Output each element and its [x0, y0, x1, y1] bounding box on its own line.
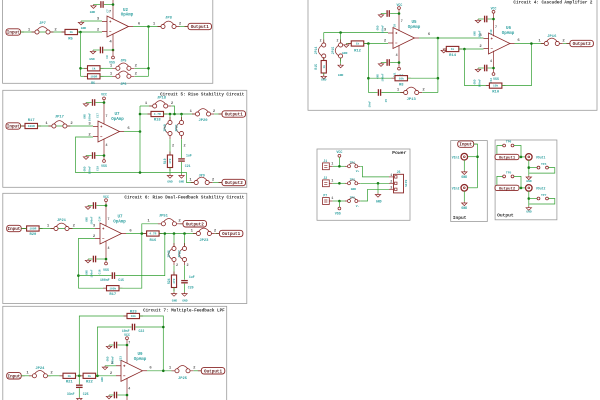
wire gnd to C17: [86, 102, 92, 104]
resistor R24 vertical: [173, 272, 175, 292]
node output junction: [139, 130, 142, 133]
op-amp U2: [107, 16, 129, 37]
svg-text:100nF: 100nF: [91, 269, 94, 277]
svg-text:JP18: JP18: [157, 97, 167, 101]
node R18 left: [139, 113, 142, 116]
op-amp U7b: [100, 223, 122, 244]
wire R15 to gnd: [323, 73, 325, 75]
node R8 right: [437, 77, 440, 80]
wire R6 to JP6: [100, 75, 113, 77]
power pin4 wire: [105, 241, 107, 262]
wire C22 to right vertical: [135, 326, 163, 328]
node VSS junction: [126, 394, 129, 397]
svg-text:C18: C18: [99, 269, 102, 274]
svg-text:C8: C8: [393, 24, 396, 28]
resistor R15 vertical: [323, 57, 325, 77]
supply VSS circle: [338, 207, 341, 210]
wire TP1 to J6 pin1: [360, 166, 389, 177]
svg-text:U9: U9: [137, 353, 143, 357]
svg-text:GND: GND: [461, 206, 467, 210]
wire C17 to rail: [96, 102, 105, 104]
svg-text:JP24: JP24: [35, 367, 45, 371]
svg-text:10nF: 10nF: [369, 101, 372, 108]
svg-text:10k: 10k: [131, 314, 136, 318]
supply VCC circle: [105, 199, 108, 202]
ground power: [375, 193, 380, 197]
wire R17 row right: [119, 234, 142, 289]
svg-text:JP14: JP14: [314, 47, 318, 55]
node VCC junction: [126, 344, 129, 347]
power pin 7 wire: [112, 0, 114, 19]
wire R17 row left: [78, 287, 106, 289]
wire C24 to rail: [117, 394, 127, 396]
svg-text:4: 4: [490, 59, 492, 63]
node row2: [338, 182, 341, 185]
capacitor C8: [386, 10, 387, 17]
jumper JP16: [541, 43, 563, 45]
svg-text:4.7R: 4.7R: [154, 113, 161, 116]
svg-text:TP3: TP3: [350, 196, 356, 199]
svg-text:2: 2: [384, 40, 387, 44]
wire R8 row right: [408, 77, 438, 79]
pin J6-1 stub: [389, 176, 394, 178]
pin J6-2 stub: [389, 182, 394, 184]
jumper JP19 vertical: [169, 117, 171, 139]
capacitor C23: [114, 342, 115, 349]
svg-text:C17: C17: [97, 113, 100, 118]
wire gnd to C8: [381, 13, 386, 15]
wire gnd vertical: [377, 183, 379, 193]
wire gnd to C23: [109, 344, 114, 346]
wire row2: [333, 182, 346, 184]
node row1 right: [147, 67, 150, 70]
jumper JP14 vertical: [323, 40, 325, 62]
wire R3 to JP5: [100, 67, 113, 69]
jumper JP7: [32, 31, 54, 33]
capacitor C5: [378, 89, 379, 96]
capacitor C17: [92, 99, 93, 106]
node VSS junction: [492, 67, 495, 70]
power pin7 wire: [126, 340, 128, 364]
svg-text:2: 2: [422, 88, 425, 92]
wire R5 to op-amp pin2: [78, 31, 103, 33]
svg-text:1k: 1k: [70, 30, 74, 34]
svg-text:7: 7: [495, 25, 497, 29]
node R8 row: [367, 77, 370, 80]
supply VSS circle: [398, 67, 401, 70]
wire C10 to rail: [488, 18, 494, 20]
wire gnd to C14: [88, 205, 93, 207]
pin J6-3 stub: [389, 188, 394, 190]
test point TP6 circles: [503, 144, 506, 147]
svg-text:C10: C10: [490, 29, 493, 34]
svg-text:R24: R24: [167, 278, 171, 284]
svg-text:100R: 100R: [28, 125, 35, 128]
Output2 port: [495, 185, 519, 190]
svg-text:JP19: JP19: [163, 124, 167, 132]
svg-text:JP25: JP25: [178, 377, 188, 381]
resistor R14: [443, 48, 463, 50]
ground VIn1: [462, 171, 467, 175]
ground of C19: [83, 156, 88, 160]
svg-text:GND: GND: [351, 188, 357, 191]
svg-text:7: 7: [128, 341, 130, 345]
wire JP19 to R19: [169, 139, 171, 155]
svg-text:Input: Input: [453, 215, 467, 221]
wire TP2 to J6 pin2: [360, 182, 389, 184]
svg-text:2: 2: [179, 23, 182, 27]
wire gnd to R14: [444, 48, 447, 50]
svg-text:10k: 10k: [493, 84, 498, 88]
test point VOut2: [526, 185, 533, 192]
supply VSS circle: [103, 160, 106, 163]
test point TP1: [345, 165, 360, 167]
svg-text:U6: U6: [506, 27, 512, 31]
svg-text:GND: GND: [101, 377, 104, 382]
wire C21 to gnd: [181, 162, 183, 174]
svg-text:2: 2: [171, 102, 174, 106]
svg-text:J6: J6: [397, 170, 401, 174]
wire R21 to R22: [76, 375, 84, 377]
Input port: [474, 143, 478, 145]
ground C11: [378, 63, 383, 67]
svg-text:TP6: TP6: [506, 141, 512, 144]
frame Circuit 4: [308, 0, 597, 110]
Input port: [21, 375, 25, 377]
wire U6 output: [515, 43, 545, 45]
wire C20 to gnd: [184, 284, 186, 293]
ground of C7: [91, 5, 96, 9]
op-amp U5: [393, 28, 415, 49]
svg-text:1: 1: [190, 110, 193, 114]
capacitor C20 vertical: [181, 280, 188, 281]
ground at pin3: [78, 21, 83, 25]
wire JP24 to R21: [48, 375, 63, 377]
svg-text:7: 7: [106, 114, 108, 118]
resistor R17: [22, 125, 42, 127]
svg-text:C23: C23: [120, 356, 123, 361]
supply VSS circle: [112, 50, 114, 56]
wire C15 row right: [115, 234, 165, 276]
svg-text:2: 2: [50, 372, 53, 376]
wire input to R5: [21, 31, 66, 33]
svg-text:1k: 1k: [451, 47, 455, 51]
wire TP5 left leg: [497, 176, 503, 185]
wire JP21 to C21: [181, 139, 183, 158]
svg-text:JP13: JP13: [407, 98, 417, 102]
jumper JP21 vertical: [181, 117, 183, 139]
resistor R16: [143, 233, 163, 235]
wire R20 to pin3: [21, 228, 26, 230]
svg-text:2: 2: [183, 144, 185, 148]
svg-text:JP8: JP8: [165, 16, 173, 20]
wire C23 to rail: [117, 344, 127, 346]
svg-text:JP23: JP23: [199, 239, 209, 243]
svg-text:OpAmp: OpAmp: [121, 14, 134, 18]
Output1 port: [185, 26, 189, 28]
svg-text:2: 2: [213, 110, 216, 114]
wire C11 to rail: [390, 62, 399, 64]
svg-text:Output2: Output2: [186, 222, 204, 227]
jumper JP9: [191, 182, 213, 184]
svg-text:1uF: 1uF: [189, 275, 195, 279]
resistor R3: [84, 67, 104, 69]
power pin 4 wire: [103, 139, 105, 160]
frame Circuit 6: [3, 193, 247, 303]
svg-text:C15: C15: [118, 278, 124, 282]
svg-text:7: 7: [401, 19, 403, 23]
pin J1 stub: [329, 165, 332, 167]
svg-text:Output1: Output1: [225, 113, 243, 118]
wire port to R17: [21, 125, 26, 127]
connector P7: [323, 198, 330, 205]
wire R18 row left: [140, 113, 151, 115]
svg-text:GND: GND: [86, 217, 89, 222]
svg-text:4: 4: [108, 246, 110, 250]
node feedback bottom junction: [139, 171, 142, 174]
supply VCC circle: [103, 97, 106, 100]
wire R8 row left: [368, 77, 395, 79]
wire R18 row right: [164, 113, 197, 115]
svg-text:2: 2: [212, 179, 215, 183]
wire TP6 left leg: [497, 146, 503, 155]
svg-text:OpAmp: OpAmp: [502, 32, 515, 36]
svg-text:OpAmp: OpAmp: [408, 26, 421, 30]
node row1: [338, 165, 341, 168]
wire GND to op-amp pin3: [81, 20, 102, 22]
svg-text:TP2: TP2: [350, 179, 356, 182]
resistor R22: [80, 375, 100, 377]
jumper JP18: [149, 105, 171, 107]
jumper JP6: [112, 75, 134, 77]
supply VCC circle: [338, 154, 341, 157]
resistor R6: [84, 75, 104, 77]
jumper JP51: [158, 223, 180, 225]
Input port: [21, 228, 25, 230]
wire JP16 to Output2: [563, 43, 570, 45]
svg-text:R18: R18: [154, 118, 162, 122]
svg-text:1: 1: [153, 23, 156, 27]
Output1 port: [219, 113, 223, 115]
wire R14 to U6 pin2: [459, 48, 484, 50]
frame Input: [451, 141, 488, 222]
svg-text:GND: GND: [84, 166, 87, 171]
node row3: [338, 200, 341, 203]
resistor R19 vertical: [169, 152, 171, 172]
svg-text:R17: R17: [109, 293, 117, 297]
svg-text:2: 2: [178, 220, 181, 224]
svg-text:Input: Input: [7, 125, 20, 130]
resistor R17b: [103, 287, 123, 289]
wire port down: [474, 144, 478, 188]
svg-text:Output2: Output2: [573, 42, 591, 47]
ground C20: [182, 292, 187, 296]
svg-text:R17: R17: [28, 119, 36, 123]
frame Output: [495, 140, 557, 220]
svg-text:Input: Input: [7, 374, 20, 379]
wire VIn2 down: [463, 191, 465, 201]
wire gnd to C11: [381, 62, 386, 64]
test point TP4 circles: [537, 166, 540, 169]
svg-text:Output2: Output2: [499, 187, 516, 191]
svg-text:2: 2: [390, 179, 392, 183]
resistor R21: [60, 375, 80, 377]
wire VOut1 down: [528, 160, 530, 176]
test point TP2: [345, 182, 360, 184]
svg-text:Power: Power: [392, 150, 407, 156]
svg-text:C19: C19: [97, 166, 100, 171]
svg-text:C9: C9: [106, 55, 109, 59]
wire to R6: [81, 75, 88, 77]
svg-text:Circuit 5: Riso Stability Circ: Circuit 5: Riso Stability Circuit: [160, 93, 245, 98]
wire feedback vertical U5: [367, 44, 369, 93]
Output2 port: [180, 223, 184, 225]
svg-text:JP51: JP51: [159, 215, 169, 219]
svg-text:2: 2: [110, 372, 113, 376]
capacitor C12: [484, 65, 485, 72]
svg-text:GND: GND: [526, 180, 532, 183]
svg-text:GND: GND: [526, 211, 532, 214]
node VCC junction: [398, 12, 401, 15]
svg-text:GND: GND: [84, 114, 87, 119]
test point VIn2: [461, 185, 468, 192]
svg-text:TP4: TP4: [541, 163, 547, 166]
jumper JP46 vertical: [173, 243, 175, 265]
svg-text:Output1: Output1: [499, 156, 516, 160]
Output1 port: [216, 233, 220, 235]
ground of C9: [90, 50, 95, 54]
capacitor C9 on VSS rail: [100, 47, 101, 54]
test point TP5 circles: [503, 175, 506, 178]
wire VIn2 right: [468, 187, 478, 189]
svg-text:3: 3: [390, 185, 392, 189]
ground VIn2: [462, 202, 467, 206]
test point TP3: [345, 200, 360, 202]
svg-text:JP6: JP6: [120, 83, 126, 87]
jumper JP24: [29, 375, 51, 377]
svg-text:4: 4: [396, 53, 398, 57]
svg-text:4: 4: [106, 143, 108, 147]
jumper JP17: [48, 125, 70, 127]
wire row3: [333, 200, 346, 202]
svg-text:V+: V+: [356, 170, 360, 173]
svg-text:C20: C20: [188, 286, 194, 290]
svg-text:2: 2: [73, 224, 76, 228]
wire JP46 to R24: [173, 265, 175, 275]
jumper JP20: [192, 113, 214, 115]
op-amp U9: [121, 360, 143, 381]
wire VSS: [338, 201, 340, 207]
node VSS rail junction: [112, 49, 115, 52]
svg-text:4: 4: [109, 41, 112, 45]
svg-text:VSS: VSS: [103, 268, 109, 272]
op-amp U7: [98, 121, 120, 142]
node R18 right: [173, 113, 176, 116]
svg-text:100nF: 100nF: [112, 356, 115, 364]
svg-text:GND: GND: [474, 79, 477, 84]
capacitor C10: [484, 16, 485, 23]
svg-text:33nF: 33nF: [67, 392, 75, 396]
capacitor C15: [112, 272, 113, 279]
svg-text:VOut2: VOut2: [536, 187, 546, 191]
wire JP46 tap: [173, 234, 175, 247]
wire JP8 to Output1: [179, 26, 188, 28]
connector J2: [323, 180, 330, 187]
supply VSS circle: [105, 262, 108, 265]
wire feedback pin2: [76, 137, 195, 183]
svg-text:1: 1: [331, 162, 333, 166]
svg-text:10k: 10k: [399, 76, 404, 80]
wire JP22 tap: [184, 234, 186, 247]
capacitor C19: [92, 152, 93, 159]
svg-text:1: 1: [47, 224, 50, 228]
svg-text:JP20: JP20: [198, 119, 208, 123]
svg-text:47R: 47R: [169, 158, 172, 163]
resistor R23: [124, 315, 144, 317]
node output junction: [141, 232, 144, 235]
svg-text:Output1: Output1: [191, 25, 209, 30]
svg-text:Circuit 6: Riso Dual-Feedback: Circuit 6: Riso Dual-Feedback Stability …: [124, 196, 244, 201]
svg-text:GND: GND: [342, 52, 348, 55]
power pin7 wire: [493, 13, 495, 36]
svg-text:VCC: VCC: [103, 195, 109, 199]
ground C25: [77, 397, 82, 400]
svg-text:U7: U7: [117, 215, 123, 219]
wire C18 to rail: [96, 258, 106, 260]
node feedback tap U6: [463, 48, 466, 51]
svg-text:OpAmp: OpAmp: [111, 118, 124, 122]
svg-text:1uF: 1uF: [186, 153, 192, 157]
wire TP7 loop: [529, 199, 555, 205]
wire port to JP24: [21, 375, 32, 377]
svg-text:1: 1: [26, 372, 29, 376]
Input port: [21, 31, 25, 33]
test point VOut1: [526, 154, 533, 161]
wire JP15 to gnd: [340, 58, 342, 64]
node U5 output junction: [437, 37, 440, 40]
svg-text:P7: P7: [323, 194, 327, 198]
svg-text:2: 2: [562, 39, 565, 43]
svg-text:R10: R10: [492, 91, 500, 95]
node TP6 join: [520, 156, 523, 159]
Output1 port: [198, 370, 202, 372]
svg-text:2: 2: [172, 144, 174, 148]
ground C10: [475, 19, 480, 23]
svg-text:Circuit 7: Multiple-Feedback L: Circuit 7: Multiple-Feedback LPF: [143, 308, 225, 313]
wire JP15 tap: [340, 33, 342, 43]
svg-text:OpAmp: OpAmp: [113, 220, 126, 224]
supply VCC circle: [492, 10, 495, 13]
node tap JP21: [180, 113, 183, 116]
wire VIn1 down: [463, 160, 465, 170]
wire R19 to gnd: [169, 168, 171, 175]
capacitor C14: [93, 202, 94, 209]
connector J6: [394, 174, 404, 193]
node mid junction: [78, 375, 81, 378]
svg-text:6: 6: [149, 367, 152, 371]
svg-text:JP15: JP15: [331, 47, 335, 55]
svg-text:R14: R14: [449, 54, 457, 58]
resistor R12: [348, 43, 368, 45]
resistor R5: [62, 31, 82, 33]
svg-text:GND: GND: [461, 175, 467, 179]
test point VIn1: [461, 153, 468, 160]
power pin4 wire: [493, 51, 495, 73]
svg-text:100nF: 100nF: [381, 73, 384, 81]
svg-text:7: 7: [108, 217, 110, 221]
svg-text:6: 6: [517, 39, 520, 43]
svg-text:JP21: JP21: [174, 124, 178, 132]
